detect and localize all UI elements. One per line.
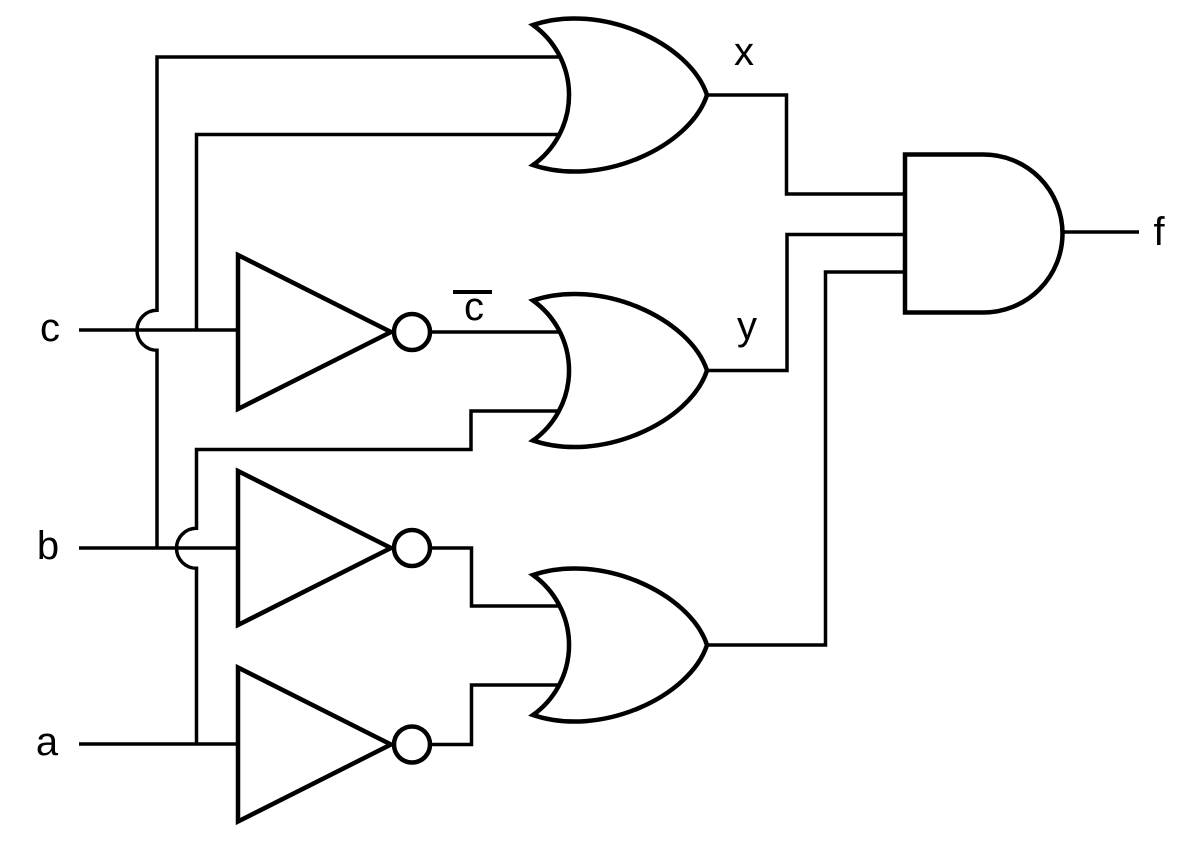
inverter U3 bubble [394,727,430,763]
wire input b [79,546,245,550]
inverter U2 triangle (input b) [238,471,391,625]
inverter U1 bubble [394,314,430,350]
wire input a [79,742,245,746]
svg-text:y: y [737,304,757,348]
inverter U2 bubble [394,530,430,566]
svg-text:c: c [40,306,60,350]
label cbar overbar [453,290,492,294]
wire x from OR1 to AND top input [700,95,910,194]
wire input c [79,328,245,332]
svg-text:x: x [734,30,754,74]
wire OR3 output to AND bottom input [700,272,910,645]
or-gate OR1 (x = b OR c) [533,18,707,171]
inverter U3 triangle (input a) [238,668,391,822]
inverter U1 triangle (input c) [238,255,391,409]
wire y from OR2 to AND middle input [700,235,910,371]
or-gate OR2 (y = cbar OR a) [533,294,707,447]
svg-text:b: b [37,524,59,568]
svg-text:a: a [36,720,59,764]
wire net a to OR2 bottom input (with hop over b) [177,411,601,744]
wire bbar from U2 to OR3 top input [415,548,600,606]
and-gate (output f) [905,155,1063,313]
wire output f [1055,230,1139,234]
wire abar from U3 to OR3 bottom input [415,685,600,745]
wire net c to OR1 bottom input [197,135,601,331]
wire net b to OR1 top input (with hop over c) [137,57,600,548]
wire cbar from U1 to OR2 top input [415,330,600,334]
svg-text:f: f [1153,210,1165,254]
or-gate OR3 (bbar OR abar) [533,568,707,721]
